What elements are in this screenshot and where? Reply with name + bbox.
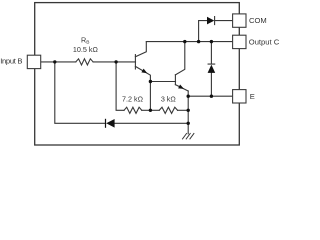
wire Q1 emitter to Q2 base bbox=[150, 81, 175, 83]
diode D1 input clamp (cathode left) bbox=[115, 122, 189, 124]
wire RB to Q1 base bbox=[93, 61, 135, 63]
transistor Q1 base bar bbox=[134, 55, 136, 69]
svg-text:7.2 kΩ: 7.2 kΩ bbox=[122, 95, 144, 104]
wire ground vertical bbox=[187, 91, 189, 134]
transistor Q2 emitter lead bbox=[175, 85, 188, 91]
wire rail up to COM diode bbox=[199, 21, 207, 42]
resistor R2 3 kOhm zigzag bbox=[159, 107, 177, 113]
resistor R1 7.2 kOhm zigzag bbox=[124, 107, 142, 113]
device outline frame bbox=[35, 3, 240, 145]
svg-text:COM: COM bbox=[249, 16, 267, 25]
transistor Q1 emitter arrow bbox=[141, 69, 147, 74]
wire node B down-left branch bbox=[55, 62, 106, 123]
diode D2 clamp to COM bbox=[215, 17, 233, 25]
diode D3 output-emitter vertical bbox=[208, 42, 215, 97]
terminal box Input B bbox=[27, 55, 40, 68]
wire R1 to node E1 bbox=[142, 109, 151, 111]
wire R2 to ground node bbox=[178, 109, 189, 111]
svg-text:E: E bbox=[250, 92, 255, 101]
terminal box E bbox=[233, 90, 246, 103]
wire 3k resistor left bbox=[150, 109, 159, 111]
wire input box to RB bbox=[41, 61, 76, 63]
ground symbol hatches bbox=[183, 134, 194, 139]
diode D2 triangle bbox=[207, 17, 214, 25]
transistor Q2 collector lead bbox=[175, 42, 184, 75]
svg-text:Input B: Input B bbox=[0, 56, 22, 65]
transistor Q2 emitter arrow bbox=[178, 85, 184, 89]
resistor RB 10.5 kOhm zigzag bbox=[76, 59, 93, 65]
svg-text:3 kΩ: 3 kΩ bbox=[161, 95, 177, 104]
transistor Q1 emitter lead bbox=[135, 66, 150, 81]
terminal box COM bbox=[233, 14, 246, 27]
transistor Q2 base bar bbox=[174, 75, 176, 85]
terminal box Output C bbox=[233, 35, 246, 48]
wire E rail bbox=[188, 95, 232, 97]
wire Q1 emitter node vertical bbox=[149, 82, 151, 111]
junction node dots bbox=[53, 60, 56, 63]
wire collector rail to Output C bbox=[146, 41, 232, 43]
transistor Q1 collector lead bbox=[135, 42, 146, 57]
diode D1 triangle and bar bbox=[106, 119, 114, 128]
diode D3 triangle bbox=[208, 65, 216, 73]
svg-text:10.5 kΩ: 10.5 kΩ bbox=[73, 45, 99, 54]
svg-text:Output C: Output C bbox=[249, 37, 280, 46]
wire 7.2k top branch bbox=[116, 62, 124, 110]
